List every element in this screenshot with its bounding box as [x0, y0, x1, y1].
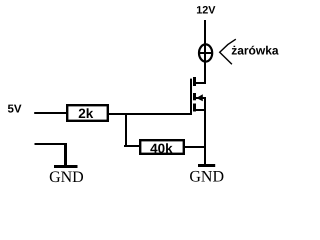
Q1 source connection wire	[195, 109, 207, 111]
svg-text:5V: 5V	[8, 103, 22, 115]
ground bar right	[198, 164, 215, 167]
wire: gate node branch down	[125, 113, 127, 147]
transistor Q1 body channel bar	[193, 93, 196, 100]
ground bar left	[54, 165, 78, 168]
wire: left ground stub horizontal	[35, 143, 67, 145]
svg-text:12V: 12V	[196, 5, 216, 17]
Q1 body connection wire	[196, 97, 206, 99]
wire: source node down to ground	[204, 97, 206, 166]
resistor R1 body	[67, 105, 108, 121]
wire: R2 right terminal to source node	[184, 146, 206, 148]
wire: left ground stub vertical	[64, 143, 67, 166]
transistor Q1 source channel bar	[193, 104, 196, 112]
wire: R1 output to Q1 gate	[109, 113, 192, 115]
Q1 drain connection wire	[193, 82, 206, 84]
transistor Q1 drain channel bar	[193, 77, 196, 86]
transistor Q1 gate line	[190, 79, 192, 115]
lamp LA1 bulb circle	[199, 44, 212, 61]
wire: 5V input to R1	[34, 112, 67, 114]
wire: 12V rail down through lamp to drain	[204, 20, 206, 84]
Q1 body arrow (N-channel)	[196, 94, 203, 101]
resistor R2 body	[140, 140, 184, 154]
svg-text:40k: 40k	[150, 141, 173, 156]
wire: branch to R2 left terminal	[124, 145, 141, 147]
svg-text:GND: GND	[49, 169, 84, 186]
svg-text:GND: GND	[189, 168, 224, 185]
lamp LA1 cross horizontal stroke	[198, 52, 212, 54]
svg-text:żarówka: żarówka	[231, 44, 279, 58]
annotation arrow pointing at lamp	[220, 39, 236, 64]
svg-text:2k: 2k	[78, 106, 94, 121]
